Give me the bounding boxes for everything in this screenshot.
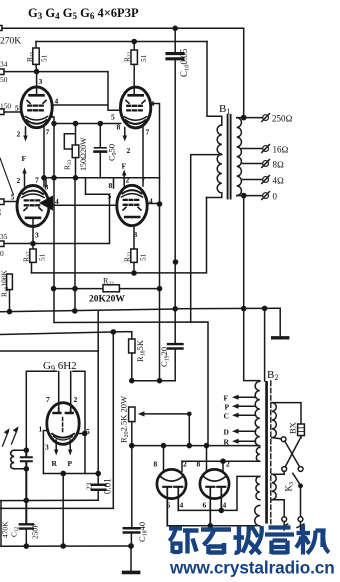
wire left edge stub [0,501,2,547]
wire vertical x113 from bus down [112,332,114,509]
wire V2 pin7 down [142,128,144,187]
node input terminal top-left [0,26,2,31]
capacitor C19 20 [159,307,183,381]
svg-text:23: 23 [85,482,94,490]
char ji [296,525,310,555]
wire vertical x75 [74,178,76,311]
capacitor C12 250P [1,521,40,546]
svg-text:51: 51 [40,54,49,62]
wire V4 pin4 [147,203,160,205]
switch K3 blade [293,473,301,485]
wire y508 [0,507,113,509]
resistor R33 150ohm 20W with loop [63,124,89,178]
wire tap 8ohm [242,160,284,170]
svg-text:3: 3 [45,443,49,452]
tube V6 rectifier [200,469,229,498]
resistor R37 [22,249,47,273]
svg-text:51: 51 [139,54,148,62]
wire anode lead V1 [36,72,38,96]
svg-text:R: R [52,459,58,468]
svg-text:5: 5 [111,113,115,122]
wire B1 primary mid tap [191,155,222,323]
wire V4 pin8 stub [113,179,115,189]
svg-text:4: 4 [180,501,184,510]
wire cross X2 [285,438,300,467]
arrow V3 screen solid [40,196,53,210]
B2 primary A [272,403,276,438]
svg-text:R: R [224,438,230,447]
svg-text:150: 150 [0,102,11,111]
wire bus y546 [1,545,131,547]
node terminal left y243 [0,241,4,247]
label G9 6H2 [43,360,77,373]
svg-text:C: C [224,412,229,421]
wire W2 anode bus [36,41,207,43]
node terminal V3 grid [0,199,4,205]
wire y381 [132,380,175,382]
tank coil left [11,450,15,469]
ground symbol right [273,308,288,338]
char shi [201,530,231,555]
wire V3 anode [32,219,34,250]
resistor R22 [123,39,149,95]
wire 0-tap down to B2 [244,196,260,381]
svg-text:F: F [22,154,27,163]
wire core ground x264 [264,308,266,381]
svg-text:1: 1 [39,425,43,434]
B2 winding 3 [256,476,260,499]
svg-text:150Ω20W: 150Ω20W [79,137,88,171]
svg-text:4: 4 [55,97,59,106]
wire bus y311 [0,309,175,500]
wire tap 250ohm [237,114,293,124]
wire V4 anode [133,226,135,250]
svg-text:5: 5 [15,104,19,113]
svg-text:7: 7 [46,128,50,137]
node switch contact T1 [281,437,286,442]
B1 secondary winding [237,118,242,196]
wire V3 grid [4,201,17,203]
resistor R19 100K [0,269,12,311]
wire cathode bus k [54,123,121,125]
svg-text:470K: 470K [1,521,10,538]
svg-text:0.01: 0.01 [103,478,113,494]
char yin [265,528,294,555]
B1 core [228,115,231,199]
svg-text:P: P [68,459,73,468]
svg-text:51: 51 [139,253,148,261]
svg-text:3: 3 [35,231,39,240]
svg-text:D: D [224,428,230,437]
svg-text:C100.05: C100.05 [179,48,191,77]
char shou [234,526,245,553]
B2 taps F P C D R [224,394,256,447]
wire gnd bus y308 [175,307,280,310]
resistor R35 [25,42,49,73]
label 270K [0,37,21,47]
svg-text:R185K: R185K [135,339,147,362]
svg-text:8: 8 [154,460,158,469]
svg-text:6: 6 [203,501,207,510]
wire B2 primary B top [272,471,284,474]
wire heater stub x85 [85,178,87,195]
wire bus y446 [132,445,258,447]
resistor R23 [123,249,148,273]
capacitor C10 0.05 [167,26,191,309]
wire G9 pin1 [43,431,46,474]
wire grid feed to V2 [4,72,121,111]
svg-text:16Ω: 16Ω [273,145,289,155]
svg-text:2: 2 [127,146,131,155]
svg-text:4: 4 [223,501,227,510]
watermark [169,525,335,578]
node terminal 150 / pin5 V1 [0,109,4,115]
wire G9 frame bottom [43,473,98,475]
wire vertical x157 [159,204,161,381]
resistor R20 2.5K20W [119,396,136,446]
wire grid V1 [4,111,21,113]
B2 primary B [272,474,276,500]
transformer B2 [267,369,278,382]
fuse BX [288,422,305,438]
svg-text:2: 2 [17,176,21,185]
B2 core solid [265,381,268,524]
wire plug stubs [284,522,300,530]
wire V1 cathode to bus [51,117,54,124]
wire V2 cathode vertical [53,124,55,323]
title G3 G4 G5 G6 4x6P3P [28,6,139,21]
wire B1 primary top to W2 [207,42,222,126]
wire G9 pin5 [79,433,85,435]
svg-text:34: 34 [0,60,8,69]
svg-text:270K: 270K [0,37,21,47]
B2 winding 4 [255,505,260,525]
wire x63 down to bus [62,474,64,547]
wire pin6 bus y526 [167,525,256,527]
wire heater leads 6H2 [59,372,71,409]
B2 secondary HV winding [255,381,260,445]
wire tap 4ohm [242,176,284,186]
antenna arrows [3,426,19,446]
node terminal 34/50 left [0,69,4,75]
tube V1 6P3P [21,87,52,128]
svg-text:3: 3 [39,77,43,86]
svg-text:4Ω: 4Ω [273,176,285,186]
wire W1 top feedback line [2,27,244,29]
wire G9 frame [26,371,56,450]
wire V5 pin8 [163,446,165,471]
wire V3 screen to V4 grid [53,204,118,206]
wire V3 pin8 stub [45,179,47,187]
capacitor C9 50 [95,124,119,178]
svg-text:7: 7 [35,176,39,185]
wire V4 grid from vertical [86,194,110,243]
B1 primary winding [217,125,222,193]
arrows R P cathode [54,440,72,456]
svg-text:6: 6 [167,501,171,510]
svg-text:250P: 250P [31,524,40,539]
tube V2 6P3P [120,87,150,128]
svg-text:F: F [122,162,127,171]
wire bus y332 + R18 [0,332,132,339]
svg-text:20K20W: 20K20W [89,295,125,305]
wire V x244 from W1 [243,28,245,117]
wire V1 pin4 screen [52,104,108,106]
tube V3 6P3P inverted [17,186,49,227]
B2 winding 2 [256,447,259,461]
svg-text:C950: C950 [107,144,119,161]
node contact T2 [282,467,287,472]
svg-text:0: 0 [0,249,4,258]
svg-text:250Ω: 250Ω [272,114,293,124]
tube G9 6H2 [47,403,79,445]
svg-text:35: 35 [0,232,8,241]
wire primary top to BX [272,403,301,424]
wire V6 pin8 [206,446,208,471]
capacitor C18 40 [124,446,149,546]
wire V5 pin2 [181,461,183,471]
wire heater bus row2 [42,177,160,179]
wire V6 pin2 [222,461,224,471]
svg-text:2: 2 [126,176,130,185]
svg-text:3: 3 [50,111,54,120]
svg-text:2: 2 [17,130,21,139]
wire tap 0 [237,192,278,202]
B2 core dashed [270,381,272,524]
svg-text:G3 G4 G5 G6 4×6P3P: G3 G4 G5 G6 4×6P3P [28,6,139,21]
svg-text:2: 2 [74,395,78,404]
capacitor C23 0.01 [85,478,113,494]
svg-text:F: F [224,394,229,403]
wire bus y500 [0,499,98,501]
wire primary A bottom to switch [272,438,281,439]
wire arrow tap to R20 [138,411,191,445]
tank capacitor [21,450,32,524]
tube V4 6P3P inverted [117,185,147,225]
svg-text:P: P [225,403,230,412]
node contact T3 [298,467,303,472]
wire cross X1 [285,441,300,467]
node plug contact left [282,517,287,522]
tube V5 rectifier [157,469,186,498]
svg-text:51: 51 [38,253,47,261]
svg-text:0: 0 [273,192,278,202]
svg-text:7: 7 [142,175,146,184]
char kuang [169,529,182,554]
svg-text:50: 50 [0,75,8,84]
svg-text:BX: BX [288,422,298,434]
wire plate return bus y273 to B1 [32,198,207,273]
svg-text:www.crystalradio.cn: www.crystalradio.cn [169,558,335,578]
resistor R18 5K [129,339,147,381]
wire tap 16ohm [242,145,289,155]
wire bus y243 [4,243,110,245]
wire B1 primary bottom [207,193,222,198]
svg-text:8Ω: 8Ω [273,160,285,170]
wire filament y461 from B2 [182,460,260,462]
svg-text:8: 8 [109,181,113,190]
wire pin4 bus y510 [178,476,259,510]
wire bus y350 [0,350,98,352]
diagonal wire upper left [0,158,14,195]
ground symbol bottom [124,546,139,572]
transformer B1 [219,103,230,116]
resistor R32 20K20W [52,277,162,305]
svg-text:7: 7 [146,128,150,137]
svg-text:7: 7 [46,395,50,404]
wire B2 primary B bottom [272,500,284,517]
svg-text:10: 10 [0,208,3,216]
wire V2 pin4 [151,104,160,205]
wire V1 pin7 down [43,127,45,187]
heater F arrows row1 [17,127,28,186]
node plug contact right [298,517,303,522]
wire bus y322 [54,322,208,446]
